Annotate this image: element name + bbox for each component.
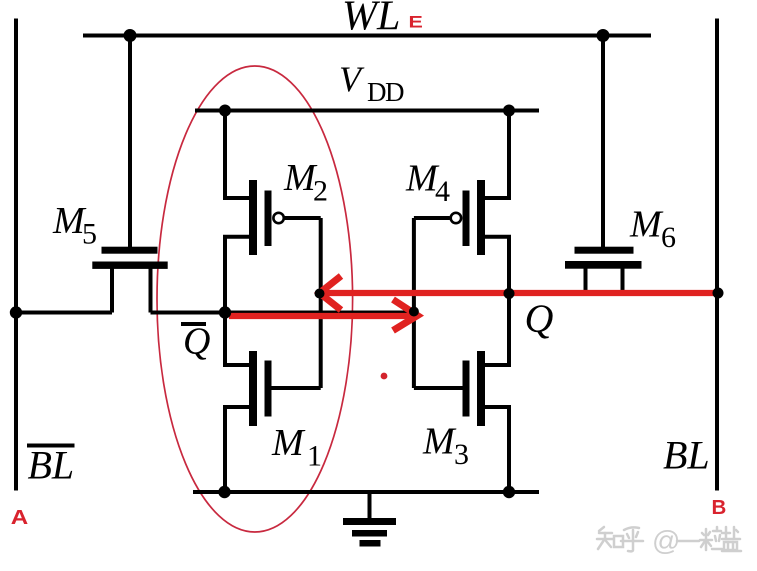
svg-text:4: 4 <box>435 175 450 208</box>
svg-text:1: 1 <box>307 440 322 473</box>
svg-text:M: M <box>271 422 306 464</box>
svg-text:WL: WL <box>342 0 400 40</box>
svg-text:6: 6 <box>661 221 676 254</box>
svg-text:2: 2 <box>313 174 328 207</box>
svg-text:Q: Q <box>525 296 554 341</box>
svg-text:BL: BL <box>663 433 710 478</box>
svg-text:B: B <box>712 496 727 519</box>
svg-text:5: 5 <box>82 218 97 251</box>
svg-text:DD: DD <box>367 77 404 107</box>
svg-text:3: 3 <box>454 438 469 471</box>
svg-text:Q: Q <box>183 321 210 363</box>
svg-text:A: A <box>11 506 28 529</box>
svg-text:M: M <box>422 421 457 463</box>
svg-text:E: E <box>409 14 424 32</box>
svg-text:@: @ <box>652 525 680 556</box>
svg-text:M: M <box>629 204 664 246</box>
svg-text:BL: BL <box>28 443 75 488</box>
